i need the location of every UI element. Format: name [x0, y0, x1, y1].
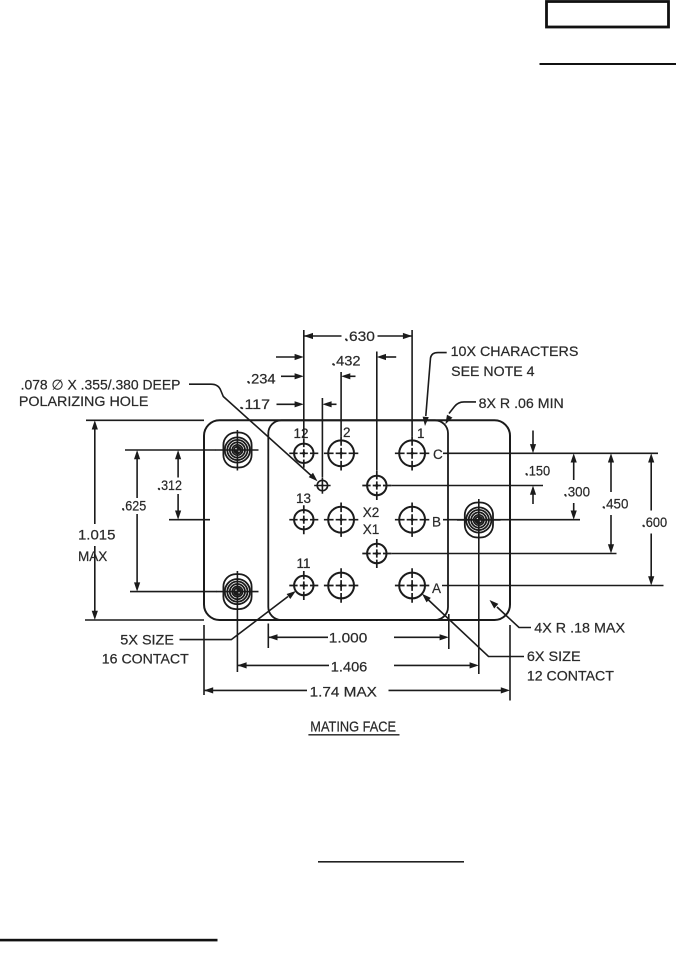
- svg-text:.600: .600: [642, 514, 667, 530]
- contact 13 (size 16): [289, 505, 318, 534]
- extension line col X: [376, 352, 378, 471]
- polarizing hole: [314, 477, 330, 493]
- contact A (size 12): [395, 568, 429, 602]
- svg-text:.300: .300: [564, 483, 590, 499]
- contact X1 (size 16): [362, 539, 391, 568]
- contact 12 (size 16): [289, 439, 318, 468]
- .312 bottom extension line: [169, 519, 210, 521]
- svg-text:10X CHARACTERS: 10X CHARACTERS: [451, 343, 579, 359]
- svg-text:C: C: [433, 447, 443, 462]
- svg-text:4X R .18 MAX: 4X R .18 MAX: [534, 619, 625, 635]
- row B extension line: [443, 519, 580, 521]
- svg-text:.432: .432: [332, 353, 361, 369]
- svg-text:1: 1: [417, 426, 425, 441]
- svg-text:8X R .06 MIN: 8X R .06 MIN: [479, 395, 564, 411]
- svg-text:.312: .312: [158, 477, 183, 493]
- leader 10X characters: [422, 353, 447, 427]
- mounting hole right crosshair + 1.406 extension: [457, 499, 501, 674]
- contact B (size 12): [395, 503, 429, 537]
- contact bottom middle (size 12): [324, 568, 358, 602]
- svg-text:12: 12: [293, 426, 308, 441]
- dimension .630: [304, 328, 412, 344]
- svg-text:.117: .117: [240, 396, 270, 412]
- svg-text:11: 11: [296, 556, 310, 571]
- svg-text:.625: .625: [122, 497, 147, 513]
- svg-text:X1: X1: [363, 522, 380, 537]
- leader 5X SIZE: [180, 589, 298, 640]
- leader 8X R .06: [443, 402, 476, 426]
- .625 bottom extension line: [130, 591, 217, 593]
- extension line polarizing col: [321, 398, 323, 477]
- mounting hole top-left: [223, 433, 251, 468]
- svg-text:1.74 MAX: 1.74 MAX: [310, 683, 378, 699]
- mounting hole bottom-left: [223, 574, 251, 609]
- row C extension line: [443, 452, 658, 454]
- bottom edge extension line left: [85, 619, 204, 621]
- contact 2 (size 12): [324, 436, 358, 470]
- .625 top extension line: [125, 449, 216, 451]
- contact 11 (size 16): [289, 571, 318, 600]
- svg-text:B: B: [432, 514, 441, 529]
- leader 6X SIZE: [420, 592, 524, 657]
- row A extension line: [442, 585, 664, 587]
- svg-text:12 CONTACT: 12 CONTACT: [527, 668, 614, 684]
- footnote rule bottom left: [0, 939, 218, 942]
- svg-text:A: A: [432, 581, 441, 596]
- connector shell outline (4X R .18 corners): [204, 420, 510, 620]
- svg-text:5X SIZE: 5X SIZE: [120, 631, 174, 647]
- svg-text:.078 ∅ X .355/.380 DEEP: .078 ∅ X .355/.380 DEEP: [21, 377, 181, 393]
- extension line col 12: [303, 330, 305, 439]
- dimension .117: [240, 396, 337, 412]
- dimension .600: [642, 453, 667, 585]
- leader 4X R .18: [487, 598, 531, 628]
- centered rule below figure: [318, 861, 464, 863]
- svg-text:.450: .450: [602, 496, 628, 512]
- note 10X characters: [451, 343, 579, 379]
- insert outline (8X R .06 corners): [268, 420, 448, 620]
- dimension .150: [525, 431, 550, 505]
- svg-text:1.000: 1.000: [329, 630, 368, 646]
- extension line col 2: [340, 372, 342, 436]
- 1.74 right extension: [509, 625, 511, 701]
- svg-text:1.406: 1.406: [331, 658, 368, 674]
- mounting hole top-left crosshair: [216, 430, 259, 471]
- dimension 1.406: [237, 658, 478, 674]
- extension line col 1: [411, 330, 413, 436]
- note polarizing hole: [19, 377, 181, 409]
- 1.000 right extension: [448, 614, 450, 649]
- dimension .300: [564, 453, 590, 519]
- note 6X SIZE 12 CONTACT: [527, 648, 614, 684]
- svg-text:13: 13: [296, 491, 311, 506]
- svg-text:.150: .150: [525, 462, 550, 478]
- contact X2 (size 16): [362, 471, 391, 500]
- 1.74 left extension: [203, 625, 205, 695]
- contact 1 / row C (size 12): [395, 436, 429, 470]
- mounting hole bottom-left crosshair + 1.406 extension: [216, 571, 259, 672]
- dimension 1.015 MAX: [78, 420, 116, 620]
- svg-text:2: 2: [343, 425, 351, 440]
- svg-text:MATING FACE: MATING FACE: [310, 720, 396, 736]
- dimension .234: [247, 370, 356, 386]
- dimension 1.000: [268, 630, 449, 646]
- dimension .432: [276, 353, 396, 369]
- svg-text:SEE NOTE 4: SEE NOTE 4: [451, 363, 535, 379]
- caption MATING FACE: [308, 720, 399, 736]
- row X1 extension line: [391, 553, 616, 555]
- dimension .450: [602, 453, 628, 553]
- row X2 extension line: [391, 485, 543, 487]
- svg-text:.630: .630: [345, 328, 375, 344]
- svg-text:POLARIZING HOLE: POLARIZING HOLE: [19, 393, 149, 409]
- svg-text:16 CONTACT: 16 CONTACT: [102, 651, 189, 667]
- leader polarizing hole: [189, 384, 320, 483]
- dimension 1.74 MAX: [204, 683, 510, 699]
- decimal point reinforcements: [122, 338, 645, 526]
- svg-text:.234: .234: [247, 370, 276, 386]
- svg-text:MAX: MAX: [78, 548, 108, 564]
- mounting hole right: [465, 503, 493, 538]
- dimension .312: [158, 450, 183, 520]
- svg-text:X2: X2: [363, 505, 380, 520]
- title block box top right: [547, 2, 669, 28]
- svg-text:6X SIZE: 6X SIZE: [527, 648, 581, 664]
- svg-text:1.015: 1.015: [78, 527, 116, 543]
- note 5X SIZE 16 CONTACT: [102, 631, 189, 666]
- 1.000 left extension: [267, 624, 269, 649]
- top edge extension line left: [86, 419, 204, 421]
- contact middle row B (size 12): [324, 503, 358, 537]
- dimension .625: [122, 450, 147, 592]
- horizontal rule under title box: [540, 63, 676, 65]
